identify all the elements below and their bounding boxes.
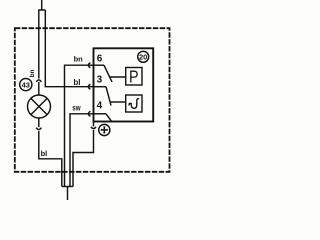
svg-text:43: 43 <box>22 80 30 89</box>
node 20 circle <box>138 51 149 62</box>
terminal 3 stub <box>94 86 107 88</box>
bottom cable sheath cap <box>62 186 73 188</box>
label theta <box>129 99 139 109</box>
connector arrow terminal 6 <box>88 63 90 68</box>
plus sign <box>101 129 107 131</box>
svg-text:4: 4 <box>97 101 103 112</box>
svg-text:bn: bn <box>29 69 36 77</box>
svg-text:P: P <box>129 68 139 87</box>
connector cup below box <box>91 127 96 129</box>
connector fork on bn wire <box>36 80 41 82</box>
svg-text:bl: bl <box>73 78 80 87</box>
connector cup below lamp <box>36 128 41 130</box>
lamp E43 <box>28 95 51 118</box>
wire sw to terminal 4 <box>70 114 94 187</box>
wire bl from lamp down <box>39 131 62 187</box>
plus terminal circle <box>99 124 110 135</box>
switch arm from 6 <box>104 65 112 82</box>
wire below switch box <box>93 122 95 127</box>
switch arm from 4 <box>106 114 112 122</box>
wire bn from cable to connector <box>38 10 40 79</box>
svg-text:3: 3 <box>97 75 103 86</box>
terminal 6 stub <box>94 64 105 66</box>
switch arm from 3 <box>106 87 111 106</box>
top cable wire stub <box>41 0 43 10</box>
wire bn to terminal 6 <box>65 65 94 186</box>
switch box S20 <box>94 48 154 121</box>
node 43 circle <box>20 79 32 91</box>
svg-text:sw: sw <box>72 102 81 112</box>
terminal 4 stub <box>94 113 107 115</box>
theta indicator box <box>126 95 142 112</box>
P indicator box <box>126 68 142 86</box>
svg-text:bl: bl <box>41 149 48 158</box>
wire below lamp <box>38 118 40 127</box>
connector arrow terminal 3 <box>88 84 90 89</box>
bottom cable tail wire <box>67 187 69 201</box>
wire bl from top cable to switch <box>45 10 93 87</box>
svg-text:20: 20 <box>139 53 147 62</box>
wire plus to cable <box>73 130 94 187</box>
svg-text:6: 6 <box>97 54 103 65</box>
wire bn to lamp <box>38 82 40 95</box>
svg-text:bn: bn <box>74 55 84 64</box>
dashed enclosure border <box>15 28 170 172</box>
top cable sheath cap <box>38 9 45 11</box>
connector arrow terminal 4 <box>88 111 90 116</box>
tap to theta lamp <box>110 101 126 103</box>
tap to P lamp <box>110 76 126 78</box>
